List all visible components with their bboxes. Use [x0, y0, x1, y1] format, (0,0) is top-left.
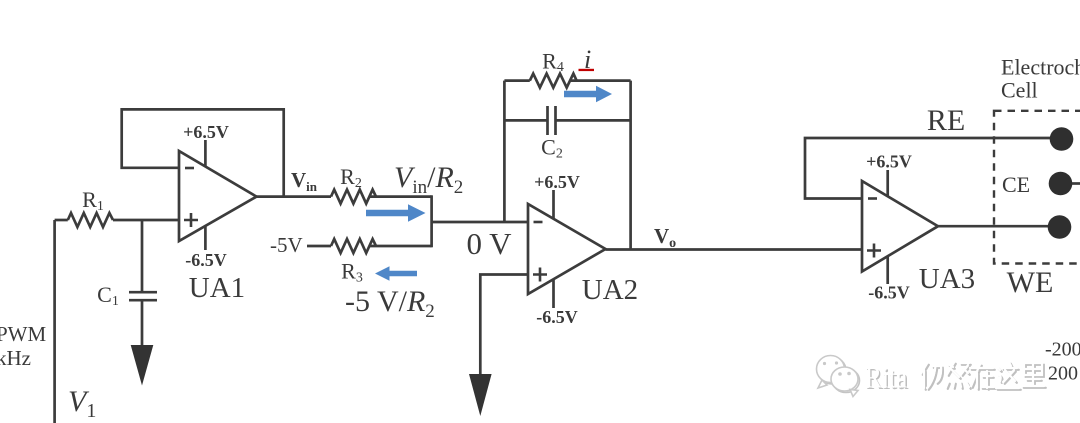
wire UA3 output to WE	[938, 225, 1058, 228]
op-amp UA2	[528, 204, 606, 294]
plus sign UA2	[533, 268, 547, 282]
minus sign UA2	[534, 221, 543, 224]
svg-text:-200: -200	[1045, 339, 1080, 361]
svg-text:+6.5V: +6.5V	[866, 152, 912, 172]
wire C2 right	[556, 119, 631, 122]
supply -6.5V line UA3	[886, 257, 889, 285]
svg-text:Vin: Vin	[291, 168, 318, 194]
svg-text:Cell: Cell	[1001, 78, 1038, 103]
wire V1 input vertical	[53, 220, 56, 423]
supply -6.5V line UA1	[204, 226, 207, 250]
wire feedback right vertical UA2	[629, 81, 632, 249]
supply +6.5V line UA2	[552, 190, 555, 219]
svg-text:V1: V1	[68, 385, 96, 422]
current arrow -5V/R2	[375, 266, 417, 280]
resistor R1	[68, 213, 113, 227]
wire feedback UA1	[122, 109, 284, 196]
minus sign UA3	[868, 197, 877, 200]
svg-text:CE: CE	[1002, 172, 1030, 197]
svg-text:PWM: PWM	[0, 322, 47, 346]
op-amp UA3	[862, 181, 938, 272]
resistor R4	[530, 74, 577, 88]
svg-text:-5V: -5V	[270, 233, 303, 257]
electrode terminal RE dot	[1050, 127, 1074, 151]
red underline below i	[579, 69, 595, 71]
svg-text:+6.5V: +6.5V	[534, 172, 580, 192]
svg-text:RE: RE	[927, 104, 965, 137]
svg-text:R3: R3	[341, 259, 363, 286]
wire C1 to ground	[141, 300, 144, 346]
wire feedback top to R4	[504, 79, 529, 82]
capacitor C1 plates	[129, 292, 157, 300]
svg-text:Rita: Rita	[865, 361, 908, 395]
minus sign UA1	[185, 167, 194, 170]
wire UA1 output to R2	[257, 195, 332, 198]
svg-text:R2: R2	[340, 164, 362, 191]
electrode terminal CE dot	[1049, 172, 1073, 196]
resistor R3	[331, 239, 376, 253]
supply +6.5V line UA3	[886, 170, 889, 196]
svg-text:-6.5V: -6.5V	[536, 307, 578, 327]
op-amp UA1	[179, 151, 257, 241]
svg-text:C2: C2	[541, 135, 563, 162]
svg-text:R4: R4	[542, 49, 564, 76]
svg-text:kHz: kHz	[0, 346, 31, 370]
svg-text:WE: WE	[1007, 266, 1054, 299]
wire R3 to junction	[369, 245, 432, 248]
wire R1 to op-amp plus input	[113, 219, 179, 222]
wire R1 left segment	[55, 219, 68, 222]
current arrow i	[564, 86, 612, 103]
ground symbol below UA2 plus input	[469, 374, 492, 416]
wire R4 to feedback right	[570, 79, 631, 82]
watermark	[817, 356, 1046, 397]
svg-text:UA2: UA2	[582, 274, 638, 306]
wire junction vertical	[430, 195, 433, 247]
wire UA2 plus input	[480, 275, 528, 375]
supply -6.5V line UA2	[552, 280, 555, 309]
wire UA3 minus feedback to RE	[805, 138, 1058, 199]
ground symbol below C1	[131, 345, 154, 386]
svg-text:C1: C1	[97, 282, 119, 309]
wire UA2 output to UA3 plus input	[606, 248, 863, 251]
svg-text:-6.5V: -6.5V	[868, 283, 910, 303]
svg-text:-5 V/R2: -5 V/R2	[345, 285, 435, 322]
svg-text:0 V: 0 V	[466, 226, 512, 261]
electrode terminal WE dot	[1048, 215, 1072, 239]
wire -5V to R3	[307, 245, 331, 248]
svg-text:-6.5V: -6.5V	[185, 250, 227, 270]
supply +6.5V line UA1	[204, 140, 207, 166]
resistor R2	[331, 190, 376, 204]
svg-text:Vin/R2: Vin/R2	[394, 161, 463, 198]
svg-text:R1: R1	[82, 187, 104, 214]
svg-text:Electrochemical: Electrochemical	[1001, 55, 1080, 80]
svg-text:+6.5V: +6.5V	[183, 122, 229, 142]
svg-text:UA3: UA3	[919, 263, 975, 295]
svg-text:Vo: Vo	[654, 224, 676, 251]
svg-text:UA1: UA1	[189, 272, 245, 304]
plus sign UA1	[184, 213, 198, 227]
wire C2 left	[504, 119, 547, 122]
svg-text:200: 200	[1048, 363, 1078, 385]
capacitor C2 plates	[548, 106, 556, 135]
electrochemical cell dashed box	[994, 111, 1080, 264]
wire feedback left vertical UA2	[503, 81, 506, 222]
current arrow Vin/R2	[366, 204, 426, 221]
wire R2 to junction	[369, 195, 432, 198]
wire C1 branch top	[141, 220, 144, 292]
wire CE stub right	[1064, 182, 1080, 185]
plus sign UA3	[867, 244, 881, 258]
wire node 0V to UA2 minus input	[432, 221, 528, 224]
